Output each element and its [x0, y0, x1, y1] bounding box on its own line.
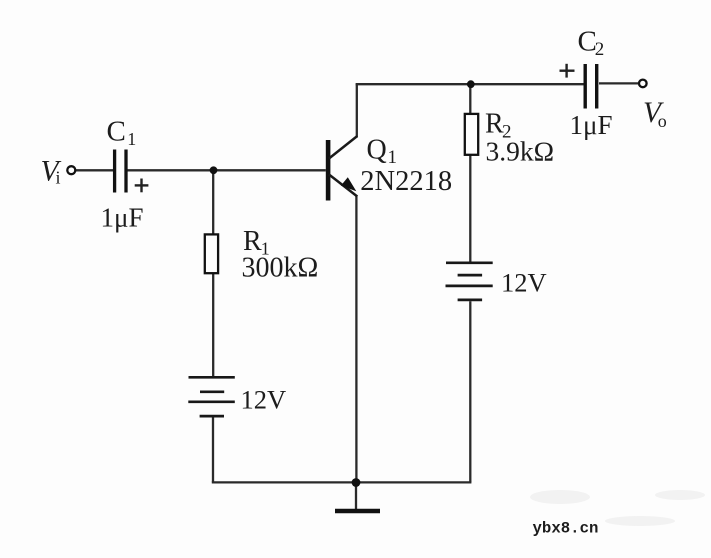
- svg-text:1: 1: [127, 129, 136, 149]
- svg-text:ybx8.cn: ybx8.cn: [533, 519, 599, 537]
- svg-text:1μF: 1μF: [570, 110, 613, 140]
- svg-text:1μF: 1μF: [101, 202, 144, 232]
- svg-text:300kΩ: 300kΩ: [242, 253, 319, 284]
- svg-text:i: i: [56, 168, 61, 188]
- svg-text:12V: 12V: [241, 385, 287, 415]
- svg-text:Q: Q: [367, 134, 387, 165]
- svg-text:2: 2: [595, 39, 605, 60]
- svg-text:o: o: [658, 111, 667, 131]
- svg-text:3.9kΩ: 3.9kΩ: [486, 136, 555, 167]
- svg-text:C: C: [107, 116, 126, 148]
- svg-text:2N2218: 2N2218: [360, 166, 452, 197]
- svg-text:12V: 12V: [501, 268, 547, 298]
